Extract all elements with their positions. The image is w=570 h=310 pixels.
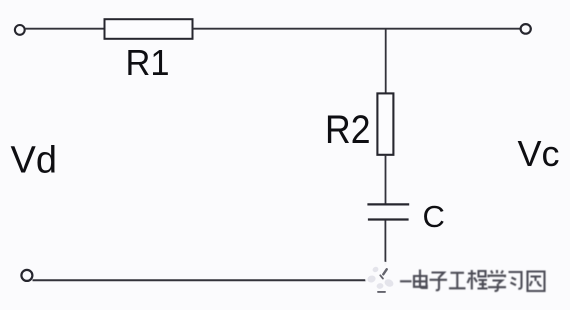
wire: top node down to R2 (385, 29, 387, 94)
char 一 (400, 280, 412, 282)
resistor R1 (105, 19, 193, 39)
wire: bottom bus (33, 279, 368, 281)
wire: R2 bottom to capacitor top plate (385, 155, 387, 204)
wire: R1 right to terminal T2 (passes node) (193, 28, 521, 30)
char 园 (528, 272, 545, 292)
svg-text:Vd: Vd (11, 140, 57, 182)
capacitor C top plate (367, 203, 409, 205)
svg-text:Vc: Vc (518, 133, 560, 174)
svg-text:R2: R2 (325, 108, 371, 152)
wire: T1 to R1 left (25, 28, 105, 30)
svg-text:C: C (423, 199, 445, 234)
char 子 (430, 273, 448, 291)
watermark: paw icon over bottom node (365, 262, 399, 294)
resistor R2 (377, 93, 393, 154)
wire: capacitor bottom plate down to bottom bus (384, 221, 386, 266)
capacitor C bottom plate (368, 218, 409, 220)
watermark text: 一电子工程学习园 (drawn strokes) (400, 270, 545, 292)
char 程 (468, 270, 488, 290)
svg-text:R1: R1 (126, 42, 170, 83)
terminal T1 (top-left input) (15, 25, 25, 35)
char 工 (449, 273, 466, 289)
char 电 (414, 270, 427, 288)
char 学 (488, 270, 506, 291)
char 习 (509, 272, 522, 289)
terminal T3 (bottom-left) (21, 270, 32, 281)
terminal T2 (top-right output) (521, 24, 531, 34)
